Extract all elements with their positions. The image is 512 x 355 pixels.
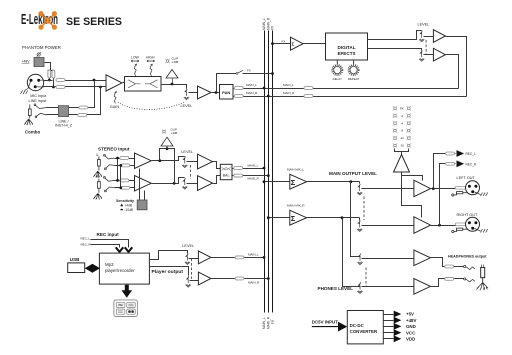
- wire mic hot: [44, 80, 107, 82]
- wire mono link 2: [120, 166, 122, 188]
- resistor player R: [235, 277, 244, 280]
- wire potR to out amp: [362, 225, 414, 227]
- svg-text:DELAY: DELAY: [333, 77, 342, 81]
- LED meter right column: [407, 106, 411, 148]
- right out jack contact: [452, 228, 470, 232]
- wire phones potR to amp: [362, 286, 414, 288]
- LEVEL pot stereo L: [182, 156, 187, 167]
- wire potL to out amp: [362, 188, 414, 190]
- LEVEL pot fx R: [419, 50, 424, 61]
- MAIN LEVEL pot L: [357, 184, 362, 195]
- wire stereo R out: [152, 178, 185, 184]
- svg-text:+5V: +5V: [406, 312, 414, 317]
- resistor BAL L: [234, 167, 243, 170]
- stereo L jack: [98, 157, 101, 171]
- EQ block: [125, 77, 162, 92]
- wire stereo L tip: [115, 158, 135, 160]
- wire fx out R: [368, 49, 422, 51]
- svg-text:USB: USB: [70, 257, 80, 262]
- op-amp stereo R: [135, 176, 152, 192]
- svg-text:MAIN_L: MAIN_L: [283, 83, 294, 87]
- PHONES pot L: [357, 253, 362, 264]
- junction FX bus: [271, 72, 274, 75]
- ground right out: [474, 228, 480, 231]
- wire stereo L out: [152, 157, 185, 161]
- resistor mic cold: [56, 86, 65, 89]
- phones L contact: [464, 265, 466, 267]
- arrow DC5V: [338, 322, 347, 332]
- svg-text:LEFT OUT: LEFT OUT: [457, 176, 476, 180]
- svg-text:Σ: Σ: [291, 214, 296, 223]
- dashed gang fx: [425, 40, 427, 54]
- svg-text:MAIN_R: MAIN_R: [283, 91, 295, 95]
- MP3 player box: [99, 253, 149, 284]
- junction clip tap R: [173, 182, 176, 185]
- bus top labels: [262, 17, 275, 30]
- op-amp MAIN MIX_R: [290, 210, 307, 225]
- junction mixR bus: [267, 216, 270, 219]
- op-amp MAIN MIX_L: [290, 174, 307, 189]
- phantom +48V box: [34, 58, 44, 67]
- svg-text:Combo: Combo: [25, 130, 40, 135]
- resistor REC_R: [446, 162, 455, 165]
- junction clip tap: [171, 83, 174, 86]
- clip comparator stereo: [161, 137, 173, 149]
- op-amp fx R: [433, 48, 445, 61]
- FX send wire: [217, 74, 273, 93]
- clip comparator mic: [172, 79, 174, 85]
- MP3 button panel: [114, 300, 137, 317]
- USB box: [68, 263, 85, 273]
- svg-text:SE SERIES: SE SERIES: [66, 16, 122, 28]
- stereo L contacts: [104, 154, 115, 169]
- arrow REC_L: [125, 247, 133, 252]
- EQ curve low: [128, 80, 141, 88]
- junction recR tap: [438, 224, 441, 227]
- wire REC_R out: [440, 164, 456, 226]
- op-amp mic preamp: [106, 75, 122, 91]
- phones R contact: [464, 278, 466, 280]
- junction BAL L bus: [263, 167, 266, 170]
- svg-text:+4dB: +4dB: [171, 131, 178, 135]
- PAN block: [220, 85, 234, 100]
- BAL block: [220, 164, 232, 179]
- svg-text:DC-DC: DC-DC: [350, 323, 365, 328]
- XLR left out: [466, 181, 480, 195]
- wire BAL R out: [233, 175, 269, 177]
- resistor player L: [235, 256, 244, 259]
- svg-text:MAIN_R: MAIN_R: [248, 177, 260, 181]
- svg-text:PHANTOM POWER: PHANTOM POWER: [22, 45, 61, 50]
- wire C1 to mic hot: [49, 79, 51, 81]
- svg-text:LEVEL: LEVEL: [418, 23, 430, 27]
- junction line-to-mic hot: [93, 79, 96, 82]
- power rail VDD: [384, 338, 394, 340]
- GAIN pot: [114, 91, 117, 104]
- wire phantom feed: [45, 63, 54, 71]
- junction player R bus: [267, 277, 270, 280]
- svg-text:MAIN MIX_R: MAIN MIX_R: [287, 203, 305, 207]
- svg-text:-10dB: -10dB: [125, 208, 134, 212]
- wire fx potR to amp: [424, 54, 434, 56]
- wire phones L feed: [351, 182, 361, 257]
- svg-text:LEVEL: LEVEL: [181, 104, 193, 108]
- junction clip tap L: [158, 159, 161, 162]
- wire potR to amp: [190, 279, 199, 281]
- resistor stereo L ring: [121, 164, 130, 167]
- svg-text:LOW: LOW: [131, 56, 140, 60]
- bus bottom labels: [262, 316, 275, 329]
- power rail VCC: [384, 332, 394, 334]
- wire bus to mixL: [265, 181, 290, 183]
- op-amp stereo R2: [198, 176, 213, 191]
- FX send switch: [236, 73, 238, 75]
- wire pot L to amp: [187, 161, 198, 163]
- svg-text:-8: -8: [401, 129, 404, 133]
- junction pan L bus: [263, 87, 266, 90]
- svg-text:Σ: Σ: [292, 42, 295, 47]
- meter tap wires: [402, 173, 422, 218]
- resistor phones R: [445, 278, 454, 281]
- left out jack contact: [452, 192, 470, 196]
- svg-text:GAIN: GAIN: [110, 105, 120, 109]
- XLR input connector: [27, 74, 43, 90]
- wire REC_R in: [91, 245, 120, 248]
- svg-text:INST-HI_Z: INST-HI_Z: [55, 124, 73, 128]
- svg-text:RIGHT OUT: RIGHT OUT: [457, 213, 478, 217]
- svg-text:MAIN_L: MAIN_L: [248, 253, 259, 257]
- jack contacts: [34, 104, 47, 118]
- wire potL to amp: [189, 258, 199, 260]
- ground left out: [474, 192, 480, 195]
- wire right out: [431, 225, 467, 227]
- resistor BAL R: [234, 174, 243, 177]
- LEVEL pot player R: [186, 276, 191, 287]
- wire stereo R tip: [115, 180, 135, 182]
- ground headphone: [476, 283, 488, 291]
- wire pot to amp2: [189, 92, 198, 94]
- op-amp FX sum: [291, 37, 304, 50]
- svg-text:VCC: VCC: [406, 330, 416, 335]
- button 4: [127, 309, 136, 314]
- power rail +5V: [384, 314, 394, 316]
- wire stereo R ring: [115, 187, 135, 189]
- svg-text:MAIN_R: MAIN_R: [246, 91, 258, 95]
- wire C2 to mic cold: [53, 79, 55, 87]
- svg-text:HIGH: HIGH: [146, 56, 155, 60]
- resistor stereo L tip: [120, 157, 129, 160]
- stereo R contacts: [104, 177, 115, 192]
- button 3: [116, 309, 125, 314]
- svg-text:+48V: +48V: [406, 318, 416, 323]
- svg-text:DC5V INPUT: DC5V INPUT: [312, 320, 338, 325]
- svg-text:REC_R: REC_R: [466, 162, 478, 166]
- wire player R to bus: [211, 278, 269, 280]
- op-amp mic stage2: [198, 86, 212, 99]
- junction phones L tap: [349, 180, 352, 183]
- phantom switch icon: [37, 52, 42, 56]
- junction C2/wire: [52, 86, 55, 89]
- power rail +48V: [384, 320, 394, 322]
- wire amp1 to EQ: [123, 82, 125, 84]
- clip LED mic: [165, 59, 169, 63]
- resistor pan R: [234, 95, 243, 98]
- svg-text:LEVEL: LEVEL: [181, 150, 193, 154]
- MAIN LEVEL pot R: [357, 220, 362, 231]
- arrow REC_R out: [457, 160, 465, 167]
- junction line-to-mic cold: [99, 86, 102, 89]
- svg-text:BAL: BAL: [223, 174, 230, 178]
- bus FX vertical: [272, 31, 274, 313]
- stereo R jack: [98, 179, 101, 193]
- svg-text:FX: FX: [247, 69, 251, 73]
- knob DELAY: [336, 60, 338, 64]
- sensitivity switch box: [137, 200, 147, 210]
- svg-text:REPEAT: REPEAT: [348, 77, 360, 81]
- junction BAL R bus: [267, 174, 270, 177]
- LEVEL pot mic: [184, 89, 189, 100]
- svg-text:+4dB: +4dB: [172, 60, 179, 64]
- ground stereo L: [93, 171, 101, 177]
- svg-text:Sensitivity: Sensitivity: [116, 199, 134, 203]
- op-amp player R: [198, 272, 211, 285]
- wire REC_L out: [434, 154, 456, 189]
- EQ curve high: [145, 80, 158, 88]
- svg-text:GND: GND: [406, 324, 416, 329]
- svg-text:-2: -2: [401, 114, 404, 118]
- wire DC5V: [312, 326, 339, 328]
- svg-text:DIGITAL: DIGITAL: [337, 45, 355, 50]
- MP3 panel arrow: [122, 285, 133, 298]
- op-amp fx L: [433, 30, 445, 43]
- svg-text:PHONES LEVEL: PHONES LEVEL: [318, 286, 354, 291]
- svg-text:REC input: REC input: [97, 232, 120, 237]
- junction C1/wire: [48, 79, 51, 82]
- LED meter left column: [393, 106, 397, 148]
- op-amp stereo L2: [198, 154, 213, 169]
- svg-text:Mp3: Mp3: [105, 262, 114, 267]
- clip detector taps: [160, 149, 175, 184]
- svg-text:REC_L: REC_L: [466, 152, 477, 156]
- resistor pan L: [234, 87, 243, 90]
- arrow REC_L out: [457, 150, 465, 157]
- wire REC_L in: [91, 240, 129, 248]
- svg-text:REC_R: REC_R: [81, 243, 92, 247]
- dashed gang main: [363, 197, 365, 221]
- wire line tip: [47, 81, 95, 108]
- op-amp stereo L: [135, 153, 152, 169]
- wire pot R to amp: [187, 183, 198, 185]
- dashed gang phones: [365, 268, 367, 287]
- svg-text:L: L: [97, 153, 99, 157]
- wire fx potL to amp: [424, 36, 434, 38]
- svg-text:STEREO input: STEREO input: [98, 147, 130, 152]
- svg-text:CONVERTER: CONVERTER: [350, 329, 378, 334]
- wire bus to mixR: [269, 217, 290, 219]
- resistor phones L: [445, 265, 454, 268]
- capacitor C2: [52, 70, 55, 78]
- button 2: [127, 302, 136, 307]
- wire phones R feed: [343, 218, 361, 287]
- wire sum to effects box: [303, 43, 326, 45]
- power rail GND: [384, 326, 394, 328]
- XLR right out: [466, 217, 480, 231]
- resistor fx return L: [304, 87, 313, 90]
- op-amp phones R: [414, 279, 431, 295]
- junction FX tap: [215, 91, 218, 94]
- svg-text:-20: -20: [400, 144, 404, 148]
- LEVEL pot fx L: [419, 31, 424, 42]
- svg-text:MAIN_L: MAIN_L: [246, 83, 257, 87]
- meter bracket: [395, 149, 409, 155]
- LED meter labels: [400, 106, 404, 147]
- dashed gang stereo: [190, 165, 192, 179]
- resistor stereo R tip: [120, 179, 129, 182]
- wire L2 to BAL: [213, 162, 221, 169]
- svg-text:MAIN MIX_L: MAIN MIX_L: [287, 167, 304, 171]
- bus MAIN_L vertical: [264, 31, 266, 313]
- junction player L bus: [263, 256, 266, 259]
- wire pan L out / fx return L: [233, 88, 459, 90]
- line jack connector: [28, 105, 31, 119]
- wire line ring: [47, 87, 101, 115]
- svg-text:Player output: Player output: [152, 269, 184, 274]
- ground mic: [25, 89, 29, 91]
- svg-text:-4: -4: [401, 121, 404, 125]
- wire player L to bus: [211, 257, 265, 259]
- DIGITAL EFECTS box: [326, 33, 368, 60]
- capacitor C1: [48, 70, 51, 78]
- wire R2 to BAL: [213, 176, 221, 184]
- sensitivity legend: [120, 204, 123, 207]
- wire mono link 1: [117, 159, 119, 181]
- junction phones R tap: [341, 216, 344, 219]
- logo molecule symbol: [41, 14, 54, 27]
- sensitivity wires: [140, 169, 145, 201]
- knob REPEAT: [353, 60, 355, 64]
- svg-text:PK: PK: [400, 106, 404, 110]
- wire player R: [150, 267, 189, 276]
- wire fx return L: [446, 55, 459, 89]
- svg-text:VDD: VDD: [406, 337, 415, 342]
- ground stereo R: [93, 193, 101, 199]
- svg-text:MIC input: MIC input: [30, 94, 47, 98]
- svg-text:Σ: Σ: [291, 178, 296, 187]
- svg-text:FX: FX: [282, 39, 286, 43]
- junction recL tap: [432, 187, 435, 190]
- svg-text:MAIN OUTPUT LEVEL: MAIN OUTPUT LEVEL: [329, 171, 377, 176]
- op-amp phones L: [414, 250, 431, 266]
- resistor line ring: [78, 114, 87, 117]
- bus MAIN_R vertical: [268, 31, 270, 313]
- svg-text:REC_L: REC_L: [81, 236, 91, 240]
- svg-text:-12: -12: [400, 136, 404, 140]
- svg-text:EFECTS: EFECTS: [337, 51, 355, 56]
- clip LED stereo: [162, 129, 166, 133]
- svg-text:HEADPHONES output: HEADPHONES output: [448, 255, 487, 259]
- wire left out: [431, 188, 467, 190]
- resistor stereo R ring: [121, 186, 130, 189]
- wire phones R out: [431, 279, 464, 287]
- junction clip base: [166, 147, 169, 150]
- junction mixL bus: [263, 180, 266, 183]
- wire stereo L ring: [115, 165, 135, 167]
- op-amp player L: [198, 251, 211, 264]
- wire phones L out: [431, 258, 464, 267]
- LINE/INST switch box: [59, 106, 69, 117]
- wire mixR out: [307, 218, 360, 221]
- op-amp left out: [414, 180, 431, 197]
- wire BAL L out: [233, 168, 265, 170]
- wire fx return R: [446, 37, 467, 97]
- wire amp2 to PAN: [211, 92, 220, 94]
- svg-text:MAIN_R: MAIN_R: [248, 280, 260, 284]
- dotted gang line gain-level: [118, 102, 184, 110]
- wire pan R out / fx return R: [233, 96, 467, 98]
- svg-text:PAN: PAN: [222, 90, 230, 95]
- resistor mic hot: [56, 79, 65, 82]
- svg-text:LEVEL: LEVEL: [182, 244, 194, 248]
- headphone plug: [481, 265, 485, 284]
- wire player L: [150, 251, 188, 260]
- svg-text:+48V: +48V: [22, 60, 31, 64]
- arrow REC_R: [116, 247, 124, 252]
- op-amp right out: [414, 217, 431, 234]
- svg-text:MAIN_L: MAIN_L: [248, 163, 259, 167]
- dashed gang player: [191, 259, 193, 279]
- wire fx out L: [368, 31, 422, 40]
- resistor line tip: [79, 106, 88, 109]
- resistor fx return R: [304, 95, 313, 98]
- LEVEL pot stereo R: [182, 178, 187, 189]
- wire phones potL to amp: [362, 258, 414, 260]
- ground line jack: [24, 119, 32, 125]
- button 1: [116, 302, 125, 307]
- wire mic cold: [44, 86, 107, 88]
- DC-DC converter box: [347, 311, 383, 344]
- svg-text:LINE input: LINE input: [29, 99, 48, 103]
- junction pan R bus: [267, 95, 270, 98]
- meter driver amp: [394, 155, 410, 173]
- svg-text:player/recorder: player/recorder: [105, 268, 135, 273]
- PHONES pot R: [357, 282, 362, 293]
- junction FX bus feed: [271, 42, 274, 45]
- svg-text:+4dB: +4dB: [125, 204, 133, 208]
- wire EQ out: [161, 85, 187, 89]
- resistor REC_L: [446, 152, 455, 155]
- LEVEL pot player L: [185, 253, 190, 264]
- wire FX bus to sum amp: [273, 43, 291, 45]
- USB bidir arrow: [85, 264, 100, 273]
- wire mixL out: [307, 182, 360, 184]
